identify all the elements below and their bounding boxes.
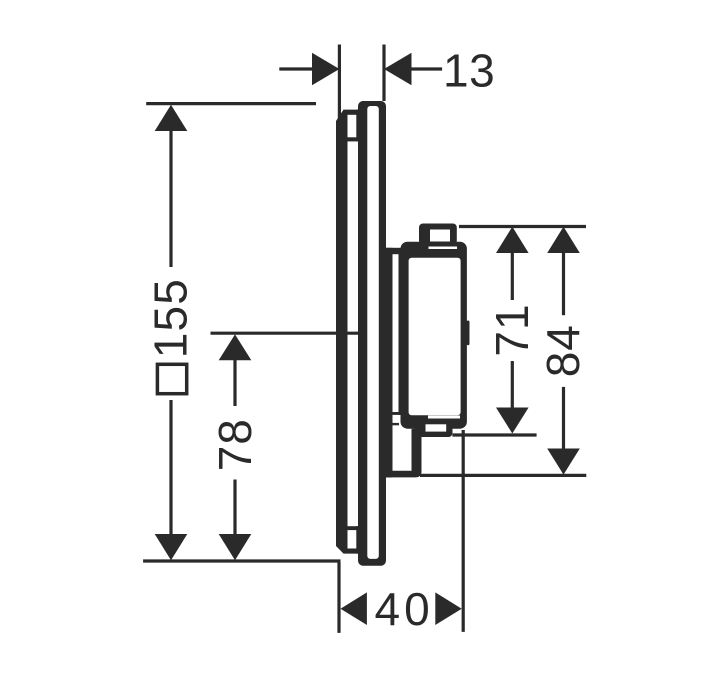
arrow dim13 right (points left) (384, 53, 412, 86)
carrier top clip tick (348, 137, 360, 141)
back plate (wall carrier, side view) (336, 110, 360, 554)
arrow dim71 top (points up) (496, 227, 529, 253)
dim 40 left extension line (337, 562, 340, 633)
dim 71/84 top extension line (459, 225, 586, 228)
label square symbol of 155 (157, 364, 186, 393)
dim 71 line upper (511, 253, 514, 300)
dim 155 line lower (169, 400, 172, 536)
dim 71 bottom extension line (452, 433, 536, 436)
select button bottom (415, 420, 453, 437)
arrow dim71 bottom (points down) (496, 408, 529, 434)
handle stem strip (399, 254, 403, 415)
carrier bottom clip tick (348, 526, 360, 530)
handle right-side nub (467, 321, 470, 346)
svg-text:155: 155 (145, 278, 197, 358)
dim 13 left extension line (338, 45, 341, 120)
dim 155 line upper (169, 128, 172, 267)
svg-text:40: 40 (375, 583, 434, 635)
dim 78 line lower (233, 480, 236, 537)
svg-text:78: 78 (209, 418, 261, 471)
arrow dim13 left (points right) (312, 53, 339, 86)
arrow dim40 left (points left) (341, 592, 367, 625)
carrier top tab right edge (356, 110, 360, 142)
svg-text:13: 13 (443, 45, 495, 97)
stem bottom tick 2 (391, 423, 400, 425)
arrow dim78 bottom (points down) (219, 534, 252, 560)
dim 155 top extension line (146, 102, 316, 105)
carrier bottom tab right edge (356, 526, 360, 553)
bottom extension line (143, 559, 340, 562)
dim 78 line upper (233, 356, 236, 406)
front plate (escutcheon, side view) (358, 101, 386, 566)
arrow dim84 bottom (points down) (547, 449, 580, 475)
handle stem top cap (386, 248, 402, 254)
arrow dim78 top (points up) (219, 334, 252, 360)
dim 13 right extension line (382, 45, 385, 102)
handle back bar (386, 248, 393, 478)
dim 84 bottom extension line (420, 474, 586, 477)
arrow dim40 right (points right) (435, 592, 461, 625)
dim 13 right tail (411, 67, 442, 70)
svg-text:71: 71 (486, 303, 538, 356)
dim 71 line lower (511, 361, 514, 410)
select button top (419, 224, 457, 246)
arrow dim84 top (points up) (547, 227, 580, 253)
dim 78 top extension line (211, 332, 361, 335)
dim 40 right extension line (462, 430, 465, 632)
arrow dim155 top (points up) (155, 105, 188, 131)
svg-text:84: 84 (537, 324, 589, 377)
dim 84 line lower (562, 387, 565, 450)
dim 13 left tail (279, 67, 313, 70)
handle body (401, 242, 467, 429)
dim 84 line upper (562, 253, 565, 315)
lower connection protrusion (386, 429, 422, 478)
stem bottom tick 1 (391, 412, 400, 415)
arrow dim155 bottom (points down) (155, 534, 188, 560)
handle bottom groove (428, 416, 460, 419)
handle top groove (429, 247, 458, 250)
